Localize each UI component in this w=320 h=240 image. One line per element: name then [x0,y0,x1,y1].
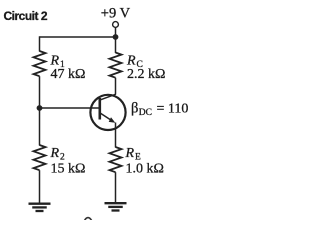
svg-text:= 110: = 110 [157,102,189,117]
ground right [105,203,127,210]
svg-text:+9 V: +9 V [101,6,131,22]
transistor Q1 emitter lead [101,113,114,122]
svg-text:β: β [131,101,138,117]
wire top horizontal [40,36,116,38]
wire R1 to R2 [39,76,41,145]
wire RC to collector [115,78,117,95]
resistor R2 [34,145,46,170]
node base junction [37,105,43,111]
svg-text:15 kΩ: 15 kΩ [51,161,86,176]
wire supply to node [115,28,117,38]
svg-text:R: R [125,146,135,161]
wire node to RC [115,37,117,53]
svg-text:1.0 kΩ: 1.0 kΩ [126,161,164,176]
svg-text:DC: DC [139,108,152,118]
supply terminal +9V [113,22,119,28]
transistor Q1 collector lead [101,94,116,100]
wire left vertical to R1 [39,36,41,51]
resistor RE [110,147,122,172]
transistor Q1 circle [90,95,125,130]
svg-text:R: R [50,146,60,161]
transistor Q1 emitter arrow [109,117,116,123]
svg-text:Circuit 2: Circuit 2 [4,9,48,23]
wire R2 to ground [39,170,41,203]
wire RE to ground [115,172,117,203]
svg-text:47 kΩ: 47 kΩ [51,67,86,82]
ground left [29,204,51,211]
partial circle bottom [84,218,91,221]
resistor R1 [34,51,46,76]
node supply junction [113,34,119,40]
svg-text:2.2 kΩ: 2.2 kΩ [127,67,165,82]
wire base [40,107,100,109]
transistor Q1 base bar [99,98,102,120]
resistor RC [110,53,122,78]
wire emitter to RE [115,123,117,148]
